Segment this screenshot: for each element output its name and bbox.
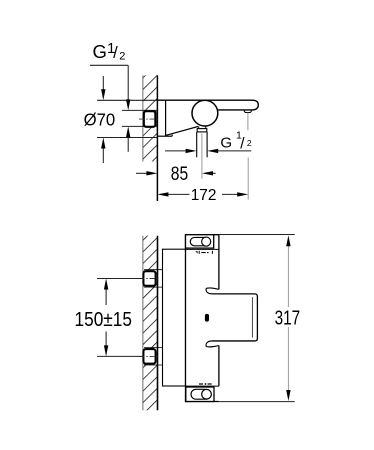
wall hatching (top view) <box>143 75 158 161</box>
dimension 317 <box>219 235 300 402</box>
union nut bottom (bottom view) <box>143 349 155 364</box>
mounting plate <box>163 249 186 386</box>
dimension 172 <box>157 187 248 204</box>
mousseur (spout outlet) <box>244 110 251 113</box>
svg-text:Ø70: Ø70 <box>84 109 116 129</box>
pipe collar <box>197 129 207 132</box>
union flange lines top union <box>144 270 162 287</box>
union flange line bottom (G1/2 ext) <box>122 125 157 127</box>
spout <box>217 100 258 110</box>
union flange lines bottom union <box>144 348 162 365</box>
G1/2 top label and leader <box>90 40 130 152</box>
centerline through nut (top view) <box>139 118 159 120</box>
body outline <box>186 235 219 402</box>
G1/2 bottom dimension <box>165 130 252 154</box>
faucet body cone <box>157 100 253 136</box>
Ø70 label and arrows <box>84 76 116 163</box>
outlet blob <box>205 314 209 322</box>
svg-text:172: 172 <box>191 187 217 204</box>
bottom handle capsule <box>191 389 211 399</box>
top handle box <box>186 235 219 250</box>
centerline bottom union <box>139 355 159 357</box>
svg-text:G: G <box>93 41 107 62</box>
spout fillet curl bottom <box>206 341 219 347</box>
svg-text:317: 317 <box>275 308 301 330</box>
dimension 85 <box>136 163 216 185</box>
dimension ext line Ø70 top <box>97 99 157 101</box>
spout fillet curl top <box>206 288 219 294</box>
dimension 150±15 <box>75 279 145 357</box>
svg-text:/: / <box>240 135 245 152</box>
top handle capsule <box>190 237 210 246</box>
wall face line (bottom view) <box>157 236 159 411</box>
dimension ext line Ø70 bottom <box>97 137 157 139</box>
svg-text:2: 2 <box>119 50 125 62</box>
svg-text:G: G <box>220 135 232 152</box>
shower pipe <box>197 132 207 157</box>
centerline top union <box>139 278 159 280</box>
wall hatching (bottom view) <box>143 236 158 411</box>
temperature scale marks (top) <box>195 251 213 254</box>
union nut (top view) <box>144 111 158 127</box>
mousseur centerline / 172 ext line <box>247 113 249 200</box>
svg-text:/: / <box>113 44 118 62</box>
knob circle <box>192 100 218 126</box>
bottom handle box <box>186 386 219 401</box>
svg-text:85: 85 <box>171 163 189 185</box>
union nut top (bottom view) <box>143 271 155 286</box>
spout tab (plan) <box>212 294 258 341</box>
union flange line top (G1/2 ext) <box>122 109 157 111</box>
shower pipe neck <box>199 126 206 128</box>
wall face line (top view) <box>156 75 158 201</box>
pipe centerline <box>201 134 203 179</box>
svg-text:2: 2 <box>247 138 252 148</box>
temperature scale marks (bottom) <box>199 383 212 385</box>
svg-text:150±15: 150±15 <box>75 309 133 331</box>
